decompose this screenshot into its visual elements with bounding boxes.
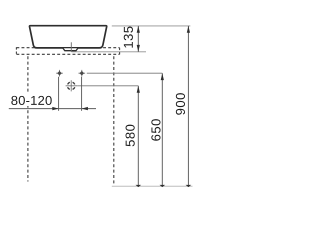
washbasin body	[29, 26, 106, 48]
dimension 135 top arrow	[137, 26, 140, 33]
floor line	[112, 185, 193, 187]
extension line from supply point right	[81, 77, 83, 111]
counter-level extension line	[71, 51, 146, 53]
dimension 80-120 line	[9, 108, 96, 110]
label 135	[124, 27, 133, 48]
dimension 650 bottom arrow	[160, 185, 166, 187]
dimension 900 line	[187, 26, 189, 186]
dimension 580 top arrow	[137, 86, 140, 93]
supply point marker left	[56, 70, 63, 77]
dimension 80-120 right-pointing arrow	[52, 107, 58, 110]
drain nub under basin	[63, 48, 78, 51]
wall projection dashed line right	[113, 56, 115, 185]
dimension 650 top arrow	[161, 73, 164, 80]
counter right dashed edge	[119, 48, 121, 55]
dimension 650 line	[161, 73, 163, 186]
supply point marker right	[79, 70, 86, 77]
dimension 135 bottom arrow	[137, 45, 140, 52]
dimension 135 line	[137, 26, 139, 52]
label 900	[176, 93, 185, 115]
counter bottom dashed edge	[16, 53, 119, 55]
wall projection dashed line left	[27, 56, 29, 181]
extension line from supply point left	[58, 77, 60, 111]
connector line at 580 level	[77, 85, 138, 87]
top extension line (rim level)	[112, 25, 191, 27]
dimension 900 top arrow	[187, 26, 190, 33]
counter top dashed edge	[16, 47, 119, 49]
connector line at 650 level	[87, 72, 163, 74]
dimension 580 bottom arrow	[136, 185, 142, 187]
label 650	[151, 119, 160, 141]
dimension 900 bottom arrow	[186, 185, 192, 187]
counter left dashed edge	[15, 47, 17, 55]
drain centerline	[70, 42, 72, 52]
dimension 80-120 left-pointing arrow	[82, 107, 88, 110]
label 580	[126, 125, 135, 147]
dimension 580 line	[137, 86, 139, 186]
label 80-120	[8, 94, 55, 106]
drain crosshair marker	[66, 80, 78, 91]
